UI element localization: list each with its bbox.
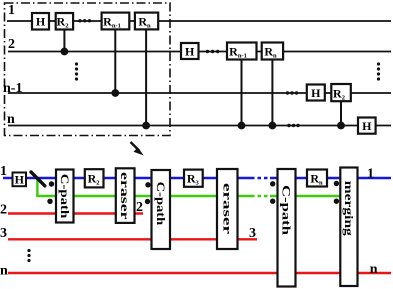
svg-text:n: n: [370, 262, 378, 277]
wire qubit line n: [8, 125, 391, 127]
junction dot green before C-path1: [47, 199, 52, 204]
wire qubit line 2: [8, 51, 391, 53]
gate C-path 2: [152, 170, 171, 249]
junction dot blue before C-path3: [270, 181, 275, 186]
gate eraser 1: [116, 168, 135, 223]
wire control R2 line n-1 to line n: [340, 101, 342, 126]
gate merging: [340, 168, 357, 287]
junction dot green before C-path2: [145, 199, 150, 204]
gate H on line n-1: [307, 85, 325, 101]
dashed-dotted boundary box: [5, 3, 171, 136]
gate Rn-1 on line 2: [227, 43, 257, 60]
svg-text:1: 1: [8, 3, 15, 18]
gate Rn on line 2: [262, 43, 283, 60]
gate R2 on line 1: [56, 13, 73, 30]
svg-text:n: n: [0, 264, 8, 279]
svg-text:H: H: [185, 45, 195, 59]
vertical ellipsis lower left: [27, 249, 30, 262]
svg-text:H: H: [15, 172, 25, 186]
wire control Rn-1 line1 to line n-1: [114, 29, 116, 93]
svg-text:1: 1: [0, 164, 7, 179]
gate C-path 1: [56, 170, 74, 223]
gate R2 on line n-1: [331, 84, 351, 101]
svg-text:3: 3: [249, 226, 256, 241]
wire path 2 red: [8, 212, 143, 214]
svg-text:1: 1: [367, 167, 374, 182]
wire green dashed continuation: [251, 195, 270, 197]
wire path 1 blue left segment: [3, 177, 251, 179]
svg-text:eraser: eraser: [220, 183, 234, 235]
ellipsis on line 2: [206, 50, 220, 53]
gate Rn on line 1: [135, 13, 158, 30]
ellipsis on line n-1: [286, 91, 298, 94]
gate R3 (lower): [184, 170, 203, 187]
junction dot green before C-path3: [270, 199, 275, 204]
wire path 1 blue right segment: [270, 177, 391, 179]
wire green path right segment: [270, 195, 341, 197]
control dot on line n at x341: [337, 122, 345, 130]
gate Rn-1 on line 1: [102, 13, 130, 30]
svg-text:C-path: C-path: [58, 174, 72, 219]
junction dot blue before merging: [334, 181, 339, 186]
svg-text:eraser: eraser: [118, 172, 132, 220]
wire path 1 blue dashed continuation: [251, 177, 270, 179]
vertical ellipsis right between line2 and n-1: [377, 62, 380, 80]
svg-text:H: H: [362, 119, 372, 133]
svg-text:H: H: [36, 15, 46, 29]
gate R2 (lower): [85, 169, 104, 187]
svg-text:3: 3: [0, 226, 7, 241]
gate H (lower): [13, 172, 27, 186]
control dot on line n at x146: [142, 122, 150, 130]
wire path n red: [8, 272, 391, 274]
wire control Rn line2 to line n: [271, 59, 273, 126]
wire control Rn-1 line2 to line n: [241, 59, 243, 126]
wire green branch vertical: [36, 177, 38, 196]
svg-text:C-path: C-path: [280, 185, 294, 235]
junction dot blue before C-path2: [145, 182, 150, 187]
wire qubit line 1: [7, 20, 391, 22]
svg-text:C-path: C-path: [154, 182, 168, 226]
control dot on line n at x272: [269, 122, 277, 130]
wire control Rn line1 to line n: [145, 29, 147, 126]
control dot on line 2 at x64: [61, 48, 69, 56]
wire path 3 red: [8, 238, 257, 240]
junction dot blue before C-path1: [49, 181, 54, 186]
gate H on line 2: [181, 43, 199, 59]
wire qubit line n-1: [8, 92, 391, 94]
ellipsis on line 1: [78, 19, 91, 22]
control dot on line n at x241: [238, 122, 246, 130]
wire green path segment: [36, 195, 251, 197]
svg-text:H: H: [311, 86, 321, 100]
gate C-path 3: [278, 169, 296, 287]
gate H on line n: [358, 118, 376, 134]
svg-text:merging: merging: [342, 181, 356, 236]
control dot on line n-1 at x115: [111, 89, 119, 97]
gate H on line 1: [32, 13, 49, 30]
gate Rn (lower): [307, 170, 327, 187]
junction dot green before merging: [334, 199, 339, 204]
arrow pointing to lower circuit: [131, 142, 144, 156]
wire control R2 line1 to line2: [63, 29, 65, 52]
svg-text:2: 2: [0, 203, 7, 218]
ellipsis on line n: [287, 124, 299, 127]
svg-text:2: 2: [136, 200, 143, 215]
beamsplitter slash: [31, 172, 45, 186]
svg-text:2: 2: [8, 37, 15, 52]
gate eraser 2: [217, 169, 238, 249]
vertical ellipsis left between line2 and n-1: [75, 62, 78, 80]
